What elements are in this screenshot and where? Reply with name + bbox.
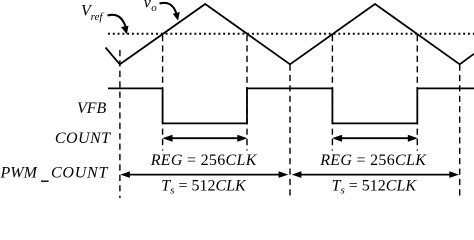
svg-text:REG = 256CLK: REG = 256CLK — [319, 152, 427, 169]
svg-text:Ts = 512CLK: Ts = 512CLK — [332, 178, 418, 197]
svg-text:o: o — [151, 2, 157, 14]
svg-text:PWM: PWM — [0, 165, 39, 182]
svg-text:REG = 256CLK: REG = 256CLK — [150, 152, 258, 169]
svg-text:VFB: VFB — [77, 100, 107, 117]
svg-text:COUNT: COUNT — [55, 130, 111, 147]
svg-text:COUNT: COUNT — [51, 165, 108, 182]
svg-text:Ts = 512CLK: Ts = 512CLK — [161, 178, 247, 197]
svg-text:ref: ref — [91, 11, 105, 23]
